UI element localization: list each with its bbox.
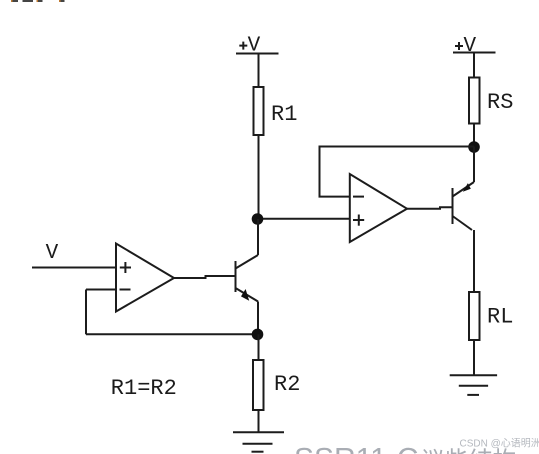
node B bbox=[252, 329, 264, 341]
wire: U2 output to Q2 base bbox=[407, 207, 453, 209]
op-amp U2 bbox=[350, 174, 407, 242]
svg-text:V: V bbox=[46, 242, 59, 265]
+V supply rail 1 bbox=[236, 53, 279, 55]
wire: R2 to ground bbox=[258, 410, 260, 432]
svg-text:RL: RL bbox=[487, 305, 513, 330]
resistor RL bbox=[469, 292, 480, 340]
svg-text:R2: R2 bbox=[274, 372, 300, 397]
transistor Q2 bbox=[452, 188, 454, 224]
wire: RL to ground bbox=[473, 340, 475, 375]
wire: rail1 to R1 top bbox=[258, 54, 260, 88]
wire: feedback node C to U2 minus input bbox=[320, 147, 475, 197]
node C bbox=[468, 141, 480, 153]
resistor R1 bbox=[254, 87, 264, 135]
transistor Q1 bbox=[235, 261, 237, 292]
wire: node B to R2 bbox=[258, 334, 260, 360]
resistor R2 bbox=[253, 360, 264, 410]
ground (right) bbox=[450, 374, 497, 376]
wire: U1 output to Q1 base bbox=[174, 276, 236, 278]
+V supply rail 2 bbox=[453, 52, 496, 54]
ground (left) bbox=[233, 431, 284, 433]
node A bbox=[252, 213, 264, 225]
wire: U1 minus input feedback bbox=[86, 289, 116, 291]
cropped text fragments top-left bbox=[11, 0, 65, 2]
svg-text:R1: R1 bbox=[271, 102, 297, 127]
op-amp U1 bbox=[116, 244, 174, 312]
svg-text:R1=R2: R1=R2 bbox=[111, 376, 177, 401]
wire: rail2 to RS bbox=[473, 53, 475, 78]
svg-text:RS: RS bbox=[487, 90, 513, 115]
resistor RS bbox=[469, 78, 480, 124]
wire: input V to op-amp U1 plus bbox=[32, 267, 116, 269]
wire: R1 bottom to node A bbox=[258, 135, 260, 219]
wire: node A to op-amp U2 plus input bbox=[259, 218, 350, 220]
wire: RS bottom to node C bbox=[473, 124, 475, 147]
